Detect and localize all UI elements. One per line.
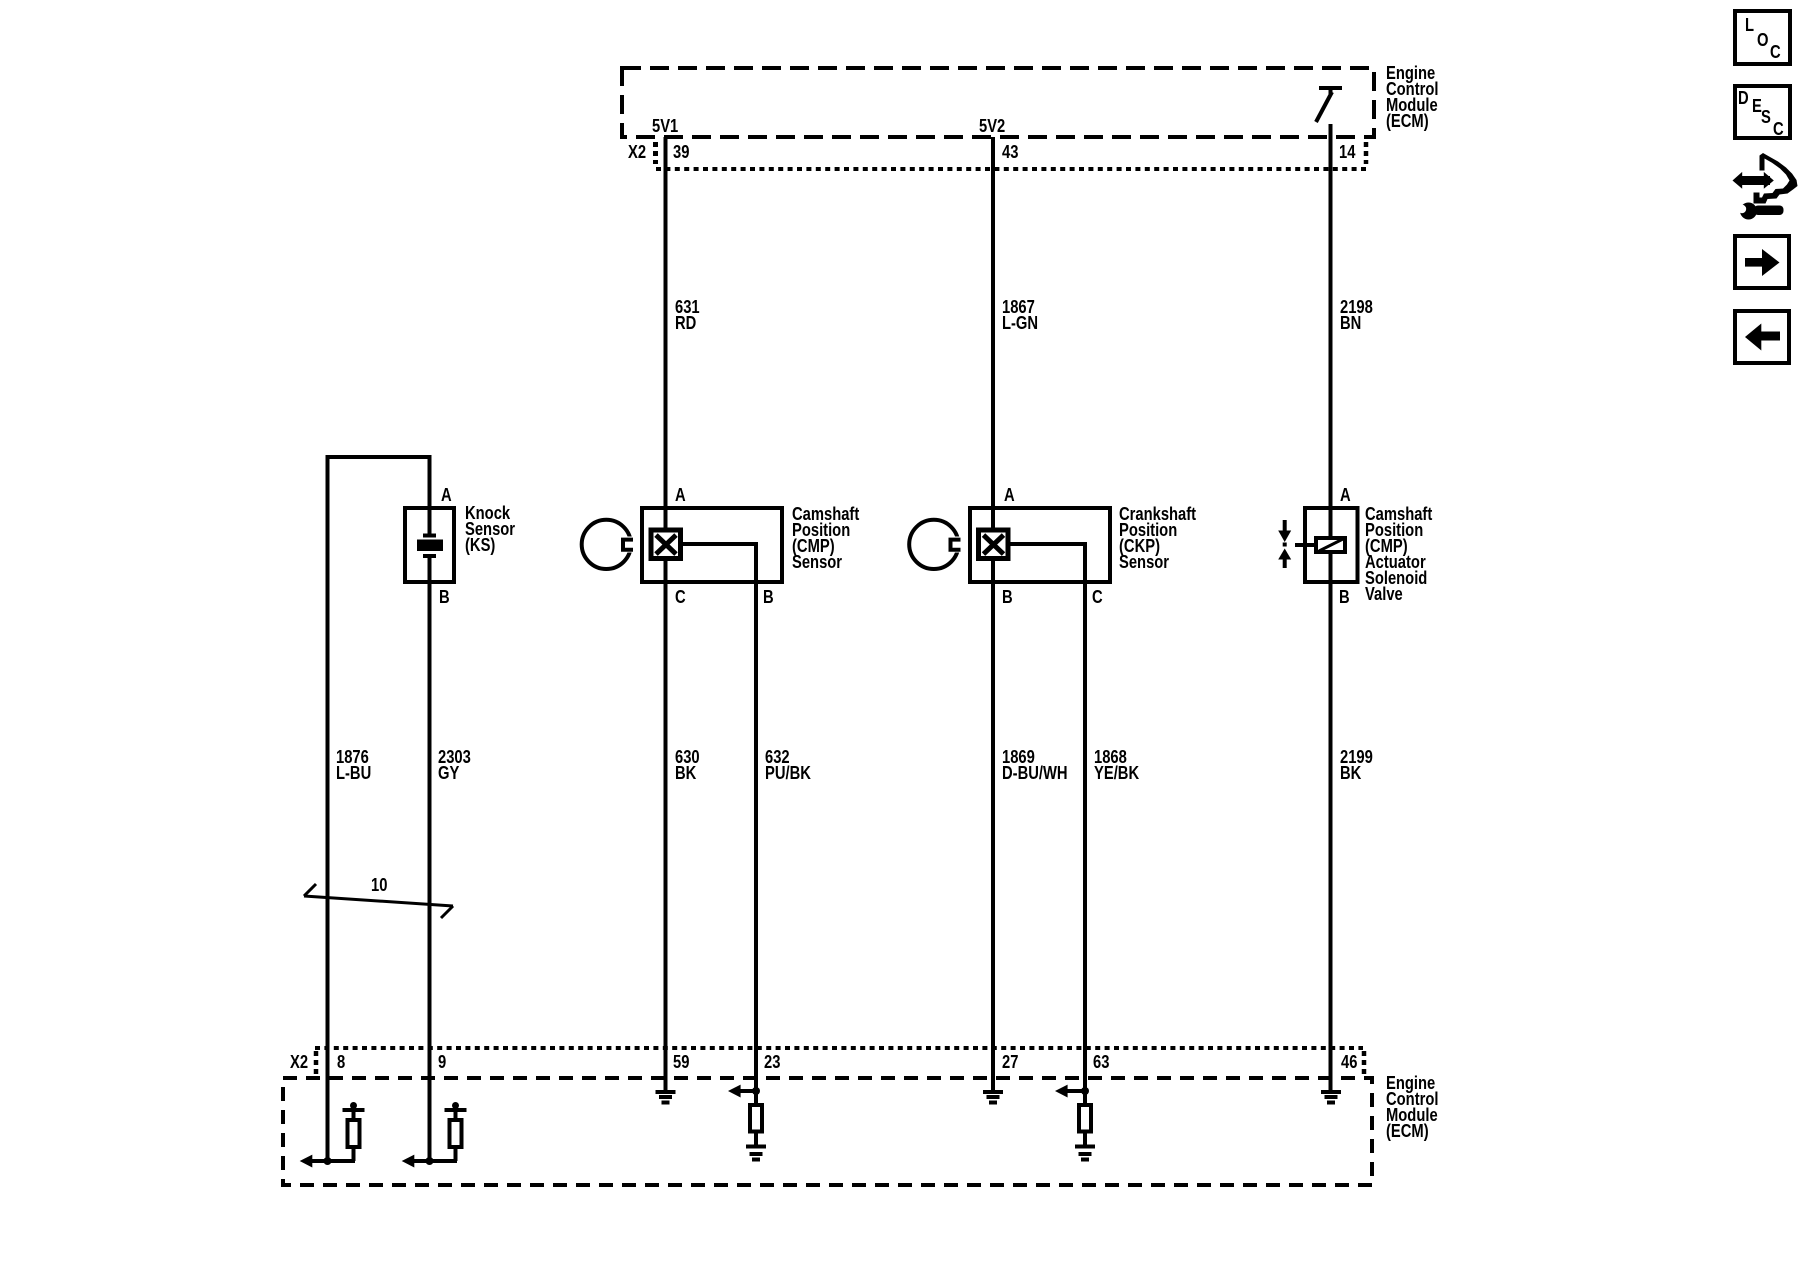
harness slash with size 10: [304, 884, 453, 918]
label ECM bottom: [1386, 1075, 1438, 1139]
CMP sensor reluctor ring circle: [582, 520, 636, 569]
icon letters LOC: [1745, 17, 1754, 33]
ECM internal pin 63 left arrow: [1055, 1085, 1087, 1098]
knock sensor KS box: [405, 508, 454, 582]
ECM internal pin 8 left arrow: [300, 1155, 355, 1168]
ECM internal pin 23 left arrow: [728, 1085, 758, 1098]
pin 63: [1093, 1054, 1109, 1070]
ECM internal resistor pin 63: [1079, 1105, 1091, 1147]
ground ECM pin 59: [656, 1092, 676, 1103]
wire label 2303 GY: [438, 749, 471, 781]
knock sensor piezo element: [417, 536, 443, 557]
pin 9: [438, 1054, 446, 1070]
CMP sensor box: [642, 508, 782, 582]
harness size label 10: [371, 877, 387, 893]
junction dot pin 23: [752, 1087, 760, 1095]
wire 2199 BK : CMP actuator pin B to ECM pin 46 ground: [1329, 552, 1333, 1092]
pin letter B actuator: [1339, 589, 1350, 605]
wire 632 PU/BK : CMP pin B to ECM pin 23: [681, 544, 756, 1105]
pin 46: [1341, 1054, 1357, 1070]
CMP actuator opposing arrows: [1278, 520, 1291, 568]
ECM internal pull-up resistor pin 8: [343, 1102, 365, 1161]
connector X2 (bottom) right dotted separator: [1362, 1051, 1367, 1074]
label CMP actuator: [1365, 506, 1432, 602]
icon letters DESC: [1738, 90, 1749, 106]
pin 23: [764, 1054, 780, 1070]
ECM internal pin 9 left arrow: [402, 1155, 457, 1168]
pin 8: [337, 1054, 345, 1070]
icon compare/exchange arrows with wrench: [1733, 153, 1798, 220]
ECM internal resistor pin 23: [750, 1105, 762, 1147]
pin letter A actuator: [1340, 487, 1351, 503]
CKP sensor reluctor ring circle: [909, 520, 963, 569]
pin letter B CMP: [763, 589, 774, 605]
ECM internal driver switch at pin 14: [1316, 88, 1342, 122]
wire label 1876 L-BU: [336, 749, 371, 781]
wire label 1867 L-GN: [1002, 299, 1038, 331]
wire 2303 GY : KS pin B to ECM pin 9: [428, 554, 432, 1161]
CKP sensor box: [970, 508, 1110, 582]
CMP actuator solenoid coil: [1295, 538, 1345, 552]
pin 59: [673, 1054, 689, 1070]
wire label 1869 D-BU/WH: [1002, 749, 1068, 781]
label ECM top: [1386, 65, 1438, 129]
ECM (top) dashed module box: [622, 68, 1374, 137]
wire 630 BK : CMP pin C to ECM pin 59 ground: [664, 559, 668, 1092]
wire 1869 D-BU/WH : CKP pin B to ECM pin 27 ground: [991, 559, 995, 1092]
CMP actuator solenoid valve box: [1305, 508, 1358, 582]
wire 2198 BN : pin 14 to CMP actuator pin A: [1329, 124, 1333, 540]
CKP sensor element boxed X: [979, 530, 1009, 559]
pin 43: [1002, 144, 1018, 160]
wire label 630 BK: [675, 749, 700, 781]
pin letter A CMP: [675, 487, 686, 503]
pin letter B KS: [439, 589, 450, 605]
wire label 1868 YE/BK: [1094, 749, 1139, 781]
pin 27: [1002, 1054, 1018, 1070]
net label 5V2: [979, 118, 1005, 134]
label knock sensor: [465, 505, 515, 553]
connector X2 (top) left dotted separator: [653, 142, 658, 164]
wire 1876 L-BU : KS pin A bend down to ECM pin 8: [328, 457, 430, 1161]
wire 1867 L-GN : 5V2 pin 43 to CKP sensor pin A: [991, 137, 995, 530]
connector X2 (top) right dotted separator: [1364, 142, 1369, 164]
junction dot pin 63: [1081, 1087, 1089, 1095]
connector X2 (bottom) left dotted separator: [314, 1051, 319, 1074]
ground ECM pin 27: [983, 1092, 1003, 1103]
pin letter A KS: [441, 487, 452, 503]
wire label 2199 BK: [1340, 749, 1373, 781]
pin 39: [673, 144, 689, 160]
connector X2 (bottom) top dotted line: [315, 1046, 1363, 1050]
label CKP sensor: [1119, 506, 1196, 570]
ECM internal pull-up resistor pin 9: [445, 1102, 467, 1161]
pin 14: [1339, 144, 1355, 160]
wire label 632 PU/BK: [765, 749, 811, 781]
pin letter C CKP: [1092, 589, 1103, 605]
CMP sensor element boxed X: [651, 530, 681, 559]
label CMP sensor: [792, 506, 859, 570]
connector label X2 bottom: [290, 1054, 308, 1070]
ground ECM pin 23: [746, 1147, 766, 1160]
net label 5V1: [652, 118, 678, 134]
connector label X2 top: [628, 144, 646, 160]
ECM (bottom) dashed module box: [283, 1078, 1372, 1185]
wire label 2198 BN: [1340, 299, 1373, 331]
wire 1868 YE/BK : CKP pin C to ECM pin 63: [1008, 544, 1085, 1105]
ground ECM pin 63: [1075, 1147, 1095, 1160]
wire 631 RD : 5V1 pin 39 to CMP sensor pin A: [664, 137, 668, 530]
icon back arrow box: [1735, 311, 1789, 363]
junction dot pin 8: [324, 1157, 332, 1165]
ground ECM pin 46: [1321, 1092, 1341, 1103]
icon LOC box: [1735, 11, 1790, 64]
icon DESC box: [1735, 86, 1790, 138]
connector X2 (top) bottom dotted line: [656, 167, 1367, 171]
junction dot pin 9: [426, 1157, 434, 1165]
icon forward arrow box: [1735, 236, 1789, 288]
pin letter B CKP: [1002, 589, 1013, 605]
wire label 631 RD: [675, 299, 700, 331]
pin letter C CMP: [675, 589, 686, 605]
pin letter A CKP: [1004, 487, 1015, 503]
